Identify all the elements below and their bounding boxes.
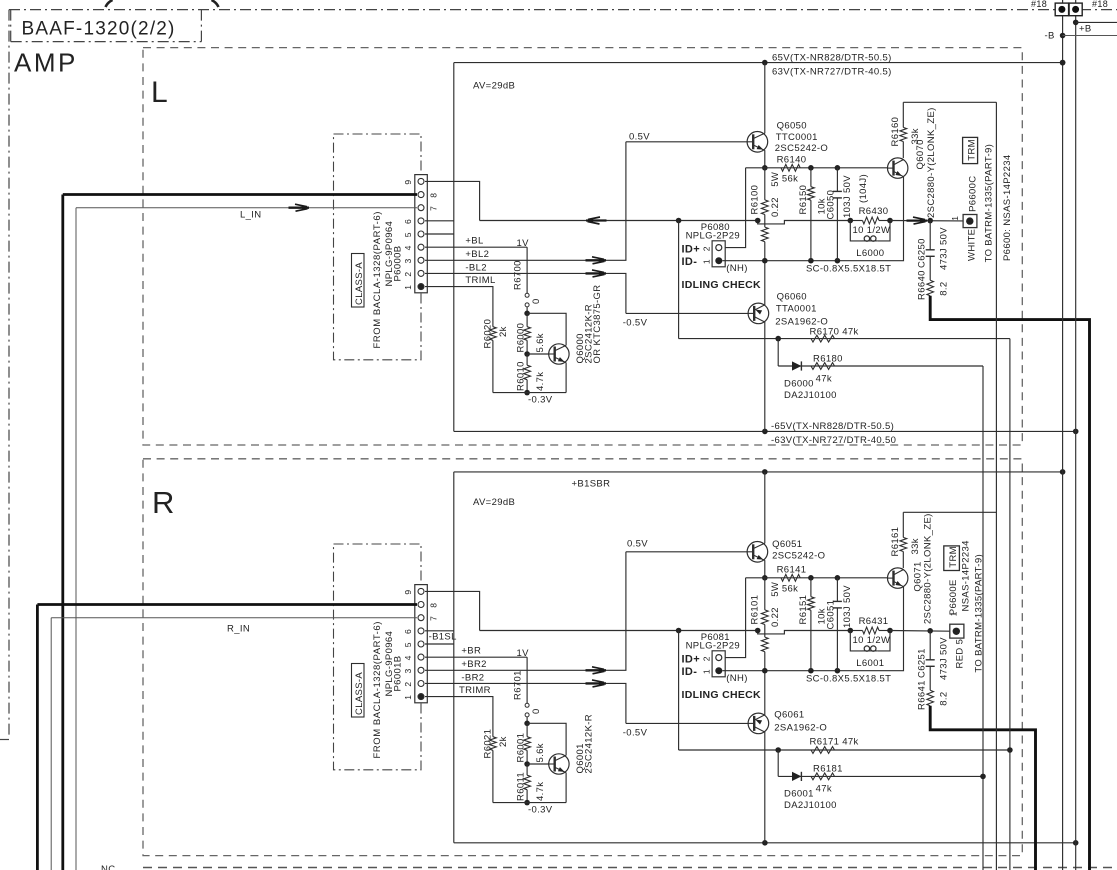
svg-text:Q6061: Q6061 — [774, 709, 804, 720]
amp block left edge — [453, 472, 455, 843]
svg-text:-B1SL: -B1SL — [429, 631, 457, 642]
wire L_IN (pin 7) — [76, 208, 417, 870]
svg-text:R6430: R6430 — [859, 206, 889, 217]
page frame dash-dot bottom tick — [0, 739, 9, 741]
svg-text:R6700: R6700 — [513, 260, 524, 290]
wire L_IN thick (pin 8) — [63, 195, 417, 870]
node base-mid — [524, 351, 530, 357]
label ID+ — [682, 653, 700, 665]
svg-text:L_IN: L_IN — [240, 210, 261, 221]
svg-text:R6020: R6020 — [483, 319, 494, 349]
resistor R6170 47k — [810, 326, 859, 342]
pin ID+ (2) — [716, 245, 722, 251]
wire R_IN thick (pin 8) — [37, 605, 417, 870]
svg-text:103J 50V: 103J 50V — [842, 585, 853, 628]
transistor Q6050 — [747, 63, 768, 168]
arrow on L_IN wire — [289, 204, 310, 211]
transistor Q6070 — [888, 158, 908, 178]
page frame dash-dot outer border (left) — [8, 10, 10, 737]
svg-text:R6000: R6000 — [516, 323, 527, 353]
node out-R6430-right — [887, 628, 893, 634]
svg-text:R6011: R6011 — [516, 772, 527, 801]
wire +BL — [425, 246, 527, 248]
svg-text:5.6k: 5.6k — [535, 743, 546, 762]
svg-text:R6181: R6181 — [813, 764, 843, 775]
node rail collector Q bottom — [762, 840, 768, 846]
wire limiter line — [679, 338, 1010, 340]
connector P6001B pin numbers — [403, 590, 439, 700]
label AMP — [14, 48, 78, 78]
label Q6000 — [575, 285, 603, 364]
label -65V(TX-NR828/DTR-50.5) — [771, 421, 894, 432]
svg-text:D6001: D6001 — [784, 789, 814, 800]
resistor emitter lower 0.22 — [761, 224, 768, 261]
wire +B bus — [1062, 0, 1064, 870]
svg-text:WHITE: WHITE — [967, 229, 978, 261]
svg-text:2SC2412K-R: 2SC2412K-R — [584, 714, 595, 773]
svg-text:NPLG-2P29: NPLG-2P29 — [686, 641, 740, 652]
svg-text:FROM BACLA-1328(PART-6): FROM BACLA-1328(PART-6) — [372, 211, 383, 348]
wire VI-limit bus 1 — [982, 366, 984, 870]
connector P6000B body — [415, 175, 428, 293]
resistor R6160 33k — [890, 102, 921, 158]
node emitter-bottom — [524, 390, 530, 396]
svg-text:-63V(TX-NR727/DTR-40.50: -63V(TX-NR727/DTR-40.50 — [771, 435, 896, 446]
pin ID- (1) — [715, 667, 722, 674]
jumper R6700 0 ohm — [513, 247, 543, 313]
svg-text:2k: 2k — [498, 736, 509, 747]
wire output — [890, 220, 963, 222]
label TRIML — [465, 275, 495, 286]
svg-text:9: 9 — [403, 180, 413, 185]
node out-R6430-left — [848, 218, 854, 224]
node +B bus -B tap — [1060, 33, 1066, 39]
resistor R6430 10 1/2W — [850, 206, 890, 236]
svg-text:0.22: 0.22 — [770, 607, 781, 627]
label NC — [101, 864, 115, 870]
node +B bus L rail — [1060, 60, 1066, 66]
svg-text:-0.5V: -0.5V — [623, 318, 648, 329]
resistor R6640 8.2 — [917, 270, 950, 300]
svg-text:10 1/2W: 10 1/2W — [853, 635, 891, 646]
svg-text:R6701: R6701 — [513, 670, 524, 700]
wire output — [890, 630, 950, 633]
label pin number 1 — [702, 669, 712, 674]
svg-text:NC: NC — [101, 864, 115, 870]
TRM box — [944, 546, 960, 571]
arrow on +BL2 — [586, 257, 607, 264]
partial glyph ( of cut-off title — [106, 0, 113, 7]
svg-text:D6000: D6000 — [784, 379, 814, 390]
node sense-R6150 — [808, 668, 814, 674]
node sense-R6100 — [762, 668, 768, 674]
bottom page dashed line — [143, 867, 1117, 869]
node rail right - — [1073, 429, 1079, 435]
CLASS-A box — [352, 254, 365, 308]
resistor R6101 0.22 5W — [750, 578, 781, 634]
svg-text:5: 5 — [403, 642, 413, 647]
svg-text:6: 6 — [403, 629, 413, 634]
CLASS-A box — [352, 664, 365, 718]
node feedback-jog — [755, 218, 761, 224]
resistor R6431 10 1/2W — [850, 616, 890, 646]
connector P6080 body — [712, 241, 725, 267]
svg-text:8: 8 — [429, 603, 439, 608]
connector #18 right box — [1069, 3, 1082, 16]
wire pin6 stub — [425, 630, 454, 632]
svg-text:8.2: 8.2 — [939, 282, 950, 296]
svg-text:OR KTC3875-GR: OR KTC3875-GR — [592, 285, 603, 364]
svg-text:+B1SBR: +B1SBR — [572, 478, 611, 489]
wire feedback line — [480, 220, 758, 222]
svg-text:R6021: R6021 — [483, 729, 494, 759]
node emitter-bottom — [524, 800, 530, 806]
wire limiter branch vertical — [678, 631, 680, 751]
node rail right + — [1060, 469, 1066, 475]
capacitor C6250 473J 50V — [917, 221, 950, 281]
svg-text:6: 6 — [403, 219, 413, 224]
svg-text:103J 50V: 103J 50V — [842, 175, 853, 218]
svg-text:2: 2 — [403, 272, 413, 277]
label P6000B — [393, 246, 404, 282]
svg-text:2: 2 — [702, 656, 712, 661]
node feedback-P6080 — [676, 218, 682, 224]
label NSAS-14P2234 — [961, 540, 972, 611]
connector P6081 body — [712, 651, 725, 677]
wire ID+ branch — [722, 168, 745, 248]
wire emitter top line — [746, 577, 888, 579]
svg-text:2k: 2k — [498, 326, 509, 337]
svg-text:R6641: R6641 — [917, 680, 928, 710]
svg-text:1: 1 — [403, 285, 413, 290]
inductor L6000 — [850, 221, 890, 260]
node VI bus1-R6181 — [980, 774, 986, 780]
wire bootstrap bus — [995, 102, 997, 870]
label 65V(TX-NR828/DTR-50.5) — [772, 52, 892, 63]
label +B — [1079, 23, 1092, 34]
svg-text:33k: 33k — [910, 538, 921, 554]
svg-text:FROM BACLA-1328(PART-6): FROM BACLA-1328(PART-6) — [372, 621, 383, 758]
wire +BR — [425, 656, 527, 658]
svg-text:+BR: +BR — [461, 646, 481, 657]
svg-text:C6051: C6051 — [826, 600, 837, 630]
svg-text:-B: -B — [1045, 31, 1055, 42]
connector P6001B pins — [418, 588, 424, 699]
label ID- — [682, 666, 698, 678]
wire 0.5V — [626, 551, 747, 553]
wire feedback jog — [758, 631, 851, 634]
resistor R6171 47k — [810, 736, 859, 753]
svg-text:5: 5 — [403, 232, 413, 237]
resistor R6151 10k — [798, 578, 828, 671]
R block dashed border — [143, 459, 1022, 856]
label TO BATRM-1335(PART-9) — [984, 144, 995, 263]
label P6001B — [393, 656, 404, 692]
node sense-R6100 — [762, 258, 768, 264]
label #18 left — [1031, 0, 1047, 9]
node emitter junction — [762, 575, 768, 581]
svg-text:4.7k: 4.7k — [535, 782, 546, 801]
transistor Q6060 — [748, 261, 769, 432]
svg-text:56k: 56k — [782, 583, 798, 594]
wire pin5 stub — [425, 643, 454, 645]
svg-text:+BR2: +BR2 — [461, 659, 486, 670]
svg-text:0: 0 — [531, 708, 542, 714]
svg-text:2: 2 — [403, 682, 413, 687]
wire limiter line — [679, 749, 1010, 751]
label pin 1 of P6600E — [949, 611, 959, 616]
svg-text:2SC5242-O: 2SC5242-O — [772, 551, 825, 562]
wire pin9 to feedback node — [425, 591, 480, 630]
pin ID+ (2) — [716, 655, 722, 661]
node emitter junction — [762, 165, 768, 171]
label (NH) — [726, 673, 747, 684]
label -BL2 — [465, 262, 486, 273]
label SC-0.8X5.5X18.5T — [806, 674, 891, 685]
wire pin9 to feedback node — [425, 181, 480, 220]
resistor R6021 2k — [483, 729, 567, 803]
label pin number 2 — [702, 246, 712, 251]
supply rail +65V — [454, 471, 1063, 473]
svg-text:+BL2: +BL2 — [465, 249, 489, 260]
label P6600C — [968, 175, 979, 211]
node sense-C6050 — [835, 668, 841, 674]
resistor R6011 4.7k — [516, 764, 547, 803]
svg-text:2: 2 — [702, 246, 712, 251]
svg-text:R6141: R6141 — [777, 565, 807, 576]
label -BR2 — [461, 672, 484, 683]
svg-text:65V(TX-NR828/DTR-50.5): 65V(TX-NR828/DTR-50.5) — [772, 52, 892, 63]
svg-text:R6151: R6151 — [798, 595, 809, 625]
svg-text:1: 1 — [950, 216, 960, 221]
label Q6001 — [575, 714, 595, 773]
svg-text:R6170 47k: R6170 47k — [810, 326, 859, 337]
svg-text:L6001: L6001 — [856, 658, 884, 669]
svg-text:ID-: ID- — [682, 256, 698, 268]
wire +B out — [1076, 21, 1117, 23]
resistor R6020 2k — [483, 319, 567, 393]
svg-text:TRM: TRM — [967, 139, 978, 161]
resistor R6181 47k — [811, 764, 843, 795]
wire feedback jog — [758, 221, 851, 224]
label +BR2 — [461, 659, 486, 670]
supply rail -65V — [454, 430, 1076, 432]
label pin number 1 — [702, 259, 712, 264]
svg-text:R6101: R6101 — [750, 595, 761, 625]
svg-text:2SA1962-O: 2SA1962-O — [774, 722, 827, 733]
label 1V — [517, 648, 530, 659]
node feedback-jog — [755, 628, 761, 634]
node out-R6430-left — [848, 628, 854, 634]
label +BL — [465, 236, 483, 247]
title box BAAF-1320(2/2) — [11, 10, 202, 42]
svg-text:R6150: R6150 — [798, 185, 809, 215]
label 0.5V — [629, 132, 650, 143]
svg-text:9: 9 — [403, 590, 413, 595]
label (NH) — [726, 263, 747, 274]
label -0.5V — [623, 318, 648, 329]
transistor Q6061 — [748, 671, 769, 843]
svg-text:TO BATRM-1335(PART-9): TO BATRM-1335(PART-9) — [984, 144, 995, 263]
svg-text:Q6051: Q6051 — [772, 539, 802, 550]
node sense-C6050 — [835, 258, 841, 264]
wire diode line — [778, 365, 983, 367]
svg-text:R6010: R6010 — [516, 361, 527, 391]
svg-text:3: 3 — [403, 258, 413, 263]
wire pin6 stub — [425, 220, 454, 222]
svg-text:R6171 47k: R6171 47k — [810, 736, 859, 747]
label AV=29dB — [473, 497, 515, 508]
arrow on -BL2 — [586, 270, 607, 277]
svg-text:C6250: C6250 — [917, 238, 928, 268]
transistor Q6051 — [747, 472, 768, 578]
svg-text:47k: 47k — [816, 373, 832, 384]
svg-text:473J 50V: 473J 50V — [939, 637, 950, 680]
node rail right - — [1073, 840, 1079, 846]
node out-R6430-right — [887, 218, 893, 224]
svg-text:+BL: +BL — [465, 236, 483, 247]
svg-text:Q6070: Q6070 — [915, 139, 926, 169]
label pin number 2 — [702, 656, 712, 661]
svg-text:R6640: R6640 — [917, 270, 928, 300]
page frame dash-dot outer border (top) — [9, 9, 1117, 11]
svg-text:P6600C: P6600C — [968, 175, 979, 211]
svg-text:0.22: 0.22 — [770, 197, 781, 217]
svg-text:0.5V: 0.5V — [629, 132, 650, 143]
svg-text:AMP: AMP — [14, 48, 78, 78]
resistor R6641 8.2 — [917, 680, 950, 710]
wire -BL2 — [425, 273, 626, 313]
svg-text:C6251: C6251 — [917, 648, 928, 678]
label Q6061 — [774, 709, 827, 733]
svg-text:R6161: R6161 — [890, 527, 901, 557]
svg-text:R: R — [152, 485, 175, 520]
supply rail +65V — [454, 62, 1063, 64]
capacitor C6051 103J 50V — [826, 578, 854, 671]
svg-text:0: 0 — [531, 298, 542, 304]
node output-C6250 — [927, 218, 933, 224]
svg-text:IDLING CHECK: IDLING CHECK — [682, 689, 762, 701]
resistor R6150 10k — [798, 168, 828, 261]
label -B — [1045, 31, 1055, 42]
svg-text:P6600: NSAS-14P2234: P6600: NSAS-14P2234 — [1002, 155, 1013, 261]
svg-text:TTC0001: TTC0001 — [776, 132, 818, 143]
node rail collector Q bottom — [762, 429, 768, 435]
svg-text:ID+: ID+ — [682, 653, 700, 665]
svg-text:TRIML: TRIML — [465, 275, 495, 286]
TRM box — [963, 137, 978, 163]
jumper R6701 0 ohm — [513, 657, 543, 723]
resistor R6100 0.22 5W — [750, 168, 781, 224]
svg-text:4: 4 — [403, 245, 413, 250]
svg-text:2SC2880-Y(2LONK_ZE): 2SC2880-Y(2LONK_ZE) — [923, 513, 934, 624]
resistor R6180 47k — [811, 354, 843, 385]
svg-text:L6000: L6000 — [856, 248, 884, 259]
node limiter-div — [775, 747, 781, 753]
svg-text:8.2: 8.2 — [939, 692, 950, 706]
svg-text:Q6060: Q6060 — [777, 291, 807, 302]
svg-text:8: 8 — [429, 193, 439, 198]
svg-text:(NH): (NH) — [726, 263, 747, 274]
connector P6600C pin box — [963, 215, 977, 228]
svg-text:CLASS-A: CLASS-A — [354, 262, 365, 305]
svg-text:-0.3V: -0.3V — [528, 804, 553, 815]
node sense-R6150 — [808, 258, 814, 264]
wire -0.5V — [626, 722, 748, 724]
label FROM BACLA-1328(PART-6) — [372, 621, 383, 758]
capacitor C6050 103J 50V — [826, 168, 870, 261]
node output-C6251 — [927, 628, 933, 634]
label FROM BACLA-1328(PART-6) — [372, 211, 383, 348]
pin ID- (1) — [715, 257, 722, 264]
svg-text:AV=29dB: AV=29dB — [473, 497, 515, 508]
svg-text:TRIMR: TRIMR — [459, 685, 491, 696]
svg-text:C6050: C6050 — [826, 190, 837, 220]
resistor R6001 5.6k — [516, 723, 547, 764]
resistor emitter lower 0.22 — [761, 634, 768, 671]
svg-text:DA2J10100: DA2J10100 — [784, 800, 837, 811]
svg-text:R_IN: R_IN — [227, 624, 250, 635]
label +B1SBR — [572, 478, 611, 489]
wire TRIML — [425, 287, 493, 327]
label NPLG-9P0964 — [384, 221, 395, 287]
label +BL2 — [465, 249, 489, 260]
svg-text:CLASS-A: CLASS-A — [354, 672, 365, 715]
wire -B out — [1063, 35, 1117, 37]
svg-text:473J 50V: 473J 50V — [939, 227, 950, 270]
svg-text:10 1/2W: 10 1/2W — [853, 225, 891, 236]
svg-text:5W: 5W — [770, 172, 781, 187]
node rail collector Q top — [762, 60, 768, 66]
label R_IN — [227, 624, 250, 635]
label Q6051 — [772, 539, 825, 562]
svg-text:63V(TX-NR727/DTR-40.5): 63V(TX-NR727/DTR-40.5) — [772, 67, 892, 78]
svg-text:R6160: R6160 — [890, 117, 901, 147]
svg-text:4.7k: 4.7k — [535, 372, 546, 391]
svg-text:AV=29dB: AV=29dB — [473, 81, 515, 92]
svg-text:TTA0001: TTA0001 — [776, 304, 817, 315]
svg-text:R6140: R6140 — [777, 155, 807, 166]
svg-text:P6600E: P6600E — [948, 579, 959, 615]
label SC-0.8X5.5X18.5T — [806, 264, 891, 275]
label pin 1 of P6600C — [950, 216, 960, 221]
svg-text:-BR2: -BR2 — [461, 672, 484, 683]
inductor L6001 — [850, 631, 890, 670]
thick speaker wire L — [930, 296, 1089, 870]
svg-text:(104J): (104J) — [858, 174, 869, 203]
arrow output — [907, 217, 928, 224]
label #18 right — [1092, 0, 1108, 9]
connector #18 left box — [1055, 3, 1068, 16]
node rail collector Q top — [762, 469, 768, 475]
resistor R6141 56k — [777, 565, 807, 595]
wire limiter branch vertical — [678, 221, 680, 339]
svg-text:5.6k: 5.6k — [535, 333, 546, 352]
label -0.3V — [528, 804, 553, 815]
label 0.5V — [627, 539, 648, 550]
svg-text:R6180: R6180 — [813, 354, 843, 365]
label -0.5V — [623, 728, 648, 739]
wire feedback line — [480, 630, 758, 632]
node topline-C6050 — [835, 165, 841, 171]
connector P6001B dash-dot box — [334, 544, 422, 770]
node base-top — [524, 311, 530, 317]
wire ID+ branch — [722, 578, 745, 658]
svg-text:4: 4 — [403, 655, 413, 660]
resistor R6161 33k — [890, 512, 921, 568]
wire -0.5V — [626, 312, 748, 314]
bootstrap box top — [903, 101, 996, 103]
